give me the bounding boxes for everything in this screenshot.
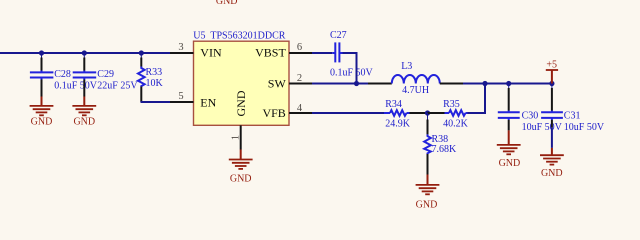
svg-text:VFB: VFB — [262, 106, 285, 120]
node junction VFB divider — [425, 110, 430, 115]
svg-text:VBST: VBST — [255, 45, 286, 59]
wire R35 up to output rail — [468, 85, 486, 113]
svg-text:GND: GND — [73, 117, 95, 128]
wire main input rail — [0, 52, 170, 54]
power port +5 — [546, 60, 558, 84]
node junction at C28 — [39, 50, 44, 55]
wire VFB — [312, 112, 384, 114]
svg-text:0.1uF 50V: 0.1uF 50V — [330, 68, 374, 79]
svg-text:1: 1 — [231, 135, 242, 140]
ground (below C28) — [30, 97, 54, 128]
resistor R35 — [428, 99, 469, 129]
pin 4 VFB — [289, 112, 312, 114]
capacitor C27 — [312, 30, 374, 79]
svg-text:GND: GND — [234, 90, 248, 116]
svg-text:7.68K: 7.68K — [432, 144, 458, 155]
node junction SW/C27 — [354, 81, 359, 86]
svg-text:4: 4 — [297, 103, 303, 114]
svg-text:U5: U5 — [193, 31, 205, 42]
svg-text:3: 3 — [178, 42, 183, 53]
svg-text:SW: SW — [268, 77, 287, 91]
svg-text:40.2K: 40.2K — [443, 118, 469, 129]
svg-text:C27: C27 — [330, 30, 347, 41]
svg-text:GND: GND — [230, 174, 252, 185]
svg-text:R33: R33 — [146, 67, 163, 78]
node junction at C31 / +5 — [549, 81, 554, 86]
pin 2 SW — [289, 83, 312, 85]
svg-text:10K: 10K — [146, 78, 164, 89]
resistor R38 — [424, 113, 457, 175]
svg-text:EN: EN — [200, 95, 216, 109]
wire SW — [312, 83, 368, 85]
svg-text:5: 5 — [178, 91, 183, 102]
svg-text:R34: R34 — [385, 99, 402, 110]
inductor L3 — [368, 61, 463, 96]
pin 1 GND — [240, 125, 242, 149]
svg-text:10uF 50V: 10uF 50V — [522, 122, 563, 133]
svg-text:C30: C30 — [522, 110, 539, 121]
node junction at C30 — [506, 81, 511, 86]
resistor R34 — [384, 99, 411, 129]
svg-text:C31: C31 — [564, 110, 581, 121]
node junction feedback tap — [482, 81, 487, 86]
pin 5 EN — [170, 101, 194, 103]
ground (below C30) — [497, 130, 521, 168]
svg-text:GND: GND — [541, 168, 563, 179]
wire C27 to SW node — [343, 53, 357, 84]
ground (below C29) — [72, 97, 96, 128]
svg-text:C28: C28 — [54, 69, 71, 80]
svg-text:TPS563201DDCR: TPS563201DDCR — [210, 31, 285, 42]
capacitor C31 — [541, 84, 605, 134]
ground (below C31) — [540, 148, 564, 179]
svg-text:+5: +5 — [546, 60, 557, 71]
svg-text:GND: GND — [31, 117, 53, 128]
svg-text:6: 6 — [297, 42, 302, 53]
wire EN — [141, 101, 171, 103]
node junction at C29 — [82, 50, 87, 55]
svg-text:GND: GND — [216, 0, 238, 7]
svg-text:22uF 25V: 22uF 25V — [97, 80, 138, 91]
ground (below U5) — [229, 150, 253, 185]
svg-text:GND: GND — [499, 158, 521, 169]
svg-text:GND: GND — [416, 200, 438, 211]
ground (below R38) — [416, 175, 440, 211]
resistor R33 — [138, 53, 164, 102]
node junction at R33 — [139, 50, 144, 55]
svg-text:C29: C29 — [97, 69, 114, 80]
svg-text:4.7UH: 4.7UH — [402, 85, 429, 96]
svg-text:R35: R35 — [443, 99, 460, 110]
pin 3 VIN — [170, 52, 194, 54]
wire R34 to node — [410, 112, 428, 114]
svg-text:L3: L3 — [401, 61, 412, 72]
svg-text:0.1uF 50V: 0.1uF 50V — [54, 80, 98, 91]
IC U5 TPS563201DDCR (buck regulator) — [193, 31, 289, 126]
svg-text:2: 2 — [297, 73, 302, 84]
capacitor C29 — [73, 53, 139, 97]
capacitor C28 — [30, 53, 98, 97]
svg-text:24.9K: 24.9K — [385, 118, 411, 129]
capacitor C30 — [498, 84, 563, 134]
svg-text:10uF 50V: 10uF 50V — [564, 122, 605, 133]
svg-text:VIN: VIN — [200, 45, 222, 59]
pin 6 VBST — [289, 52, 312, 54]
wire C31 to ground — [551, 127, 553, 147]
wire output rail — [463, 83, 552, 85]
